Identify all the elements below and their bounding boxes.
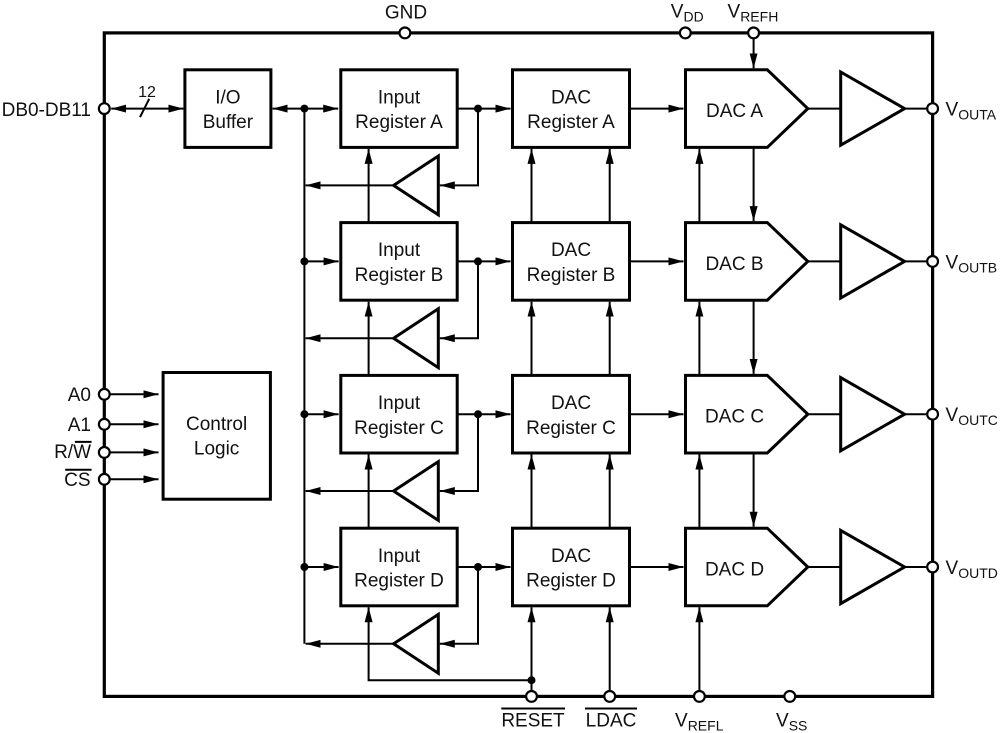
svg-text:VDD: VDD <box>671 2 704 25</box>
feedback wire row B <box>440 261 478 338</box>
svg-text:VREFH: VREFH <box>728 2 779 25</box>
op-amp output buffer A <box>841 72 905 145</box>
feedback buffer B <box>394 309 439 368</box>
wire Input Register B output <box>457 260 510 262</box>
wire data bus vertical <box>303 109 305 644</box>
wire input-register select chain D to C <box>368 455 370 529</box>
op-amp output buffer C <box>841 378 905 451</box>
node output junction row D <box>474 563 482 571</box>
wire VREFL pin riser <box>698 607 700 691</box>
svg-text:LDAC: LDAC <box>586 711 637 732</box>
wire LDAC chain C to B <box>609 302 611 376</box>
bus-width slash <box>140 99 149 117</box>
pin RESET <box>526 691 537 702</box>
svg-text:DAC D: DAC D <box>705 560 764 581</box>
wire RESET chain C to B <box>531 302 533 376</box>
DAC Register A <box>513 70 630 148</box>
wire input-register select chain B to A <box>368 149 370 223</box>
pin VOUTC <box>927 409 938 420</box>
wire DAC C to amplifier <box>808 413 841 415</box>
feedback buffer C <box>394 462 439 521</box>
wire DAC Register B to DAC B <box>630 260 684 262</box>
wire LDAC pin riser <box>609 607 611 691</box>
svg-text:VSS: VSS <box>776 711 807 733</box>
feedback wire row D <box>440 567 478 644</box>
svg-text:RESET: RESET <box>501 711 565 732</box>
wire DAC Register A to DAC A <box>630 108 684 110</box>
pin VOUTB <box>927 256 938 267</box>
DAC Register B <box>513 223 630 301</box>
wire VREFL chain D to C <box>698 455 700 529</box>
wire VREFH chain B to C <box>753 300 755 374</box>
op-amp output buffer B <box>841 225 905 298</box>
node bus junction row A <box>300 105 308 113</box>
wire DAC B to amplifier <box>808 260 841 262</box>
feedback wire row A <box>440 109 478 186</box>
wire VREFL chain B to A <box>698 149 700 223</box>
wire RESET branch to input-register chain <box>369 607 532 680</box>
op-amp output buffer D <box>841 530 905 603</box>
wire LDAC chain B to A <box>609 149 611 223</box>
wire feedback buffer D to bus <box>306 643 394 645</box>
feedback buffer D <box>394 614 439 673</box>
pin CS <box>99 474 110 485</box>
I/O Buffer U1 <box>185 70 271 148</box>
node bus junction row C <box>300 410 308 418</box>
svg-text:A1: A1 <box>68 415 91 436</box>
wire DAC Register D to DAC D <box>630 566 684 568</box>
wire VREFL chain C to B <box>698 302 700 376</box>
svg-text:VOUTD: VOUTD <box>946 558 998 581</box>
wire VREFH chain C to D <box>753 453 755 527</box>
wire A1 input to Control Logic <box>110 423 159 425</box>
svg-text:CS: CS <box>64 470 90 491</box>
feedback wire row C <box>440 414 478 491</box>
wire Input Register D output <box>457 566 510 568</box>
DAC D <box>686 528 808 606</box>
wire R/W input to Control Logic <box>110 451 159 453</box>
wire input-register select chain C to B <box>368 302 370 376</box>
svg-text:VOUTA: VOUTA <box>946 100 997 123</box>
DAC A <box>686 70 808 148</box>
pin VDD <box>680 28 691 39</box>
svg-text:DAC A: DAC A <box>706 101 763 122</box>
feedback buffer A <box>394 156 439 215</box>
wire bus to Input Register C <box>304 413 338 415</box>
DAC C <box>686 375 808 453</box>
wire feedback buffer A to bus <box>306 184 394 186</box>
pin LDAC <box>604 691 615 702</box>
pin GND <box>400 28 411 39</box>
svg-text:DB0-DB11: DB0-DB11 <box>2 100 91 121</box>
svg-text:R/W: R/W <box>54 442 91 463</box>
wire CS input to Control Logic <box>110 478 159 480</box>
pin A1 <box>99 419 110 430</box>
svg-text:12: 12 <box>138 84 156 101</box>
wire DAC Register C to DAC C <box>630 413 684 415</box>
wire RESET pin riser <box>531 607 533 691</box>
chip boundary border <box>104 33 932 697</box>
wire VREFH pin drop to DAC A <box>753 38 755 68</box>
wire amplifier to VOUTB pin <box>905 260 928 262</box>
wire bus to Input Register B <box>304 260 338 262</box>
pin DB0-DB11 <box>99 103 110 114</box>
node output junction row B <box>474 257 482 265</box>
wire Input Register A output <box>457 108 510 110</box>
wire RESET chain B to A <box>531 149 533 223</box>
wire amplifier to VOUTA pin <box>905 108 928 110</box>
DAC Register C <box>513 375 630 453</box>
Input Register B <box>341 223 457 301</box>
pin VOUTD <box>927 562 938 573</box>
DAC Register D <box>513 528 630 606</box>
node RESET branch junction <box>528 676 536 684</box>
pin R/W <box>99 447 110 458</box>
svg-text:VREFL: VREFL <box>675 711 724 733</box>
wire bus to Input Register D <box>304 566 338 568</box>
Control Logic U2 <box>163 373 270 500</box>
wire Input Register C output <box>457 413 510 415</box>
wire amplifier to VOUTD pin <box>905 566 928 568</box>
svg-text:DAC C: DAC C <box>705 407 764 428</box>
wire A0 input to Control Logic <box>110 393 159 395</box>
wire DAC D to amplifier <box>808 566 841 568</box>
node output junction row A <box>474 105 482 113</box>
svg-text:DAC B: DAC B <box>705 254 763 275</box>
pin A0 <box>99 389 110 400</box>
pin VOUTA <box>927 103 938 114</box>
wire DAC A to amplifier <box>808 108 841 110</box>
DAC B <box>686 223 808 301</box>
wire feedback buffer C to bus <box>306 490 394 492</box>
wire feedback buffer B to bus <box>306 337 394 339</box>
svg-text:VOUTC: VOUTC <box>946 405 998 428</box>
pin VREFH <box>748 28 759 39</box>
node bus junction row D <box>300 563 308 571</box>
pin VREFL <box>694 691 705 702</box>
wire I/O Buffer to bus (bidirectional) <box>273 108 339 110</box>
svg-text:VOUTB: VOUTB <box>946 252 998 275</box>
wire DB0-DB11 to I/O Buffer (bidirectional) <box>111 108 183 110</box>
node output junction row C <box>474 410 482 418</box>
wire amplifier to VOUTC pin <box>905 413 928 415</box>
wire LDAC chain D to C <box>609 455 611 529</box>
pin VSS <box>784 691 795 702</box>
Input Register D <box>341 528 457 606</box>
svg-text:GND: GND <box>385 3 427 24</box>
Input Register C <box>341 375 457 453</box>
wire RESET chain D to C <box>531 455 533 529</box>
svg-text:A0: A0 <box>68 385 91 406</box>
wire VREFH chain A to B <box>753 147 755 221</box>
Input Register A <box>341 70 457 148</box>
node bus junction row B <box>300 257 308 265</box>
